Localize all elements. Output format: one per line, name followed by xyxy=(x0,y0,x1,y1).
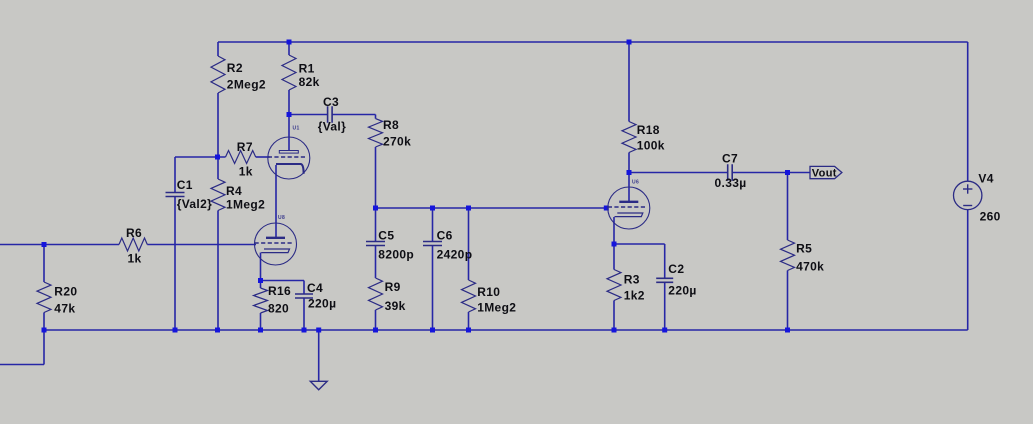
svg-text:U8: U8 xyxy=(278,215,285,221)
wire mid rail xyxy=(376,207,607,209)
capacitor C6 xyxy=(423,229,472,262)
svg-text:R1: R1 xyxy=(299,62,315,76)
svg-text:220µ: 220µ xyxy=(308,297,336,311)
capacitor C1 xyxy=(166,178,213,211)
svg-text:1k2: 1k2 xyxy=(624,289,645,303)
svg-text:R10: R10 xyxy=(477,285,500,299)
wire R5 leads xyxy=(787,173,789,331)
junction node A (R2/C1/R7/R4) xyxy=(215,155,220,160)
junction node mid R8 xyxy=(373,206,378,211)
wire U1 plate lead xyxy=(288,115,290,151)
junction node top R1 xyxy=(287,40,292,45)
junction node U8 cathode xyxy=(258,278,263,283)
capacitor C7 xyxy=(715,152,747,191)
junction node mid R10 xyxy=(466,206,471,211)
wire input down-leg xyxy=(0,245,44,365)
svg-text:2Meg2: 2Meg2 xyxy=(227,78,266,92)
junction node bus C4 xyxy=(302,328,307,333)
svg-text:1k: 1k xyxy=(239,165,253,179)
voltage source V4 xyxy=(954,172,1001,224)
junction node bus R3 xyxy=(612,328,617,333)
resistor R16 xyxy=(254,284,292,316)
wire U8 cathode lead xyxy=(260,253,262,281)
svg-text:R8: R8 xyxy=(383,118,399,132)
svg-text:C5: C5 xyxy=(378,229,394,243)
wire R4 leads xyxy=(217,157,219,330)
resistor R1 xyxy=(282,55,320,90)
svg-text:R4: R4 xyxy=(226,184,242,198)
junction node C3/R1/U1 plate xyxy=(287,112,292,117)
svg-text:1Meg2: 1Meg2 xyxy=(226,198,265,212)
svg-text:U6: U6 xyxy=(632,180,639,186)
capacitor C3 xyxy=(318,95,346,133)
svg-text:R6: R6 xyxy=(126,226,142,240)
resistor R3 xyxy=(607,270,645,303)
svg-text:C3: C3 xyxy=(323,95,339,109)
junction node U6 grid xyxy=(604,206,609,211)
capacitor C2 xyxy=(656,262,696,298)
wire C3 node to cap xyxy=(289,114,328,116)
resistor R7 xyxy=(226,140,256,179)
junction node bus R20 xyxy=(42,328,47,333)
junction node Vout xyxy=(785,170,790,175)
wire V4 bottom to ground bus xyxy=(967,210,969,331)
wire R1 top lead xyxy=(288,42,290,55)
svg-text:0.33µ: 0.33µ xyxy=(715,176,747,190)
junction node bus C1 xyxy=(173,328,178,333)
wire R1 bottom lead xyxy=(288,90,290,115)
svg-text:Vout: Vout xyxy=(812,167,837,179)
svg-text:39k: 39k xyxy=(385,299,406,313)
ground xyxy=(310,381,327,390)
svg-text:R3: R3 xyxy=(624,273,640,287)
capacitor C5 xyxy=(366,229,414,262)
svg-text:R20: R20 xyxy=(54,285,77,299)
svg-text:820: 820 xyxy=(268,302,289,316)
wire R2 bottom lead xyxy=(217,93,219,157)
svg-text:R16: R16 xyxy=(268,284,291,298)
junction node input xyxy=(42,242,47,247)
svg-text:82k: 82k xyxy=(299,75,320,89)
svg-text:470k: 470k xyxy=(796,260,824,274)
junction node mid C6 xyxy=(430,206,435,211)
svg-text:R9: R9 xyxy=(385,280,401,294)
junction node bus C6 xyxy=(430,328,435,333)
junction node R18/C7 xyxy=(627,170,632,175)
resistor R5 xyxy=(781,240,825,274)
wire R3 leads xyxy=(613,244,615,330)
junction node top R18 xyxy=(627,40,632,45)
svg-text:{Val2}: {Val2} xyxy=(177,197,212,211)
triode U6 xyxy=(608,180,650,230)
svg-text:R5: R5 xyxy=(796,242,812,256)
svg-text:U1: U1 xyxy=(293,126,300,132)
svg-text:220µ: 220µ xyxy=(668,284,696,298)
junction node bus gnd xyxy=(316,328,321,333)
junction node bus R5 xyxy=(785,328,790,333)
resistor R4 xyxy=(211,179,265,212)
wire R16 leads xyxy=(260,281,262,331)
wire C7 rail xyxy=(629,172,810,174)
junction node bus R10 xyxy=(466,328,471,333)
triode U8 xyxy=(255,215,297,265)
junction node bus C2 xyxy=(662,328,667,333)
svg-text:1k: 1k xyxy=(128,252,142,266)
capacitor C4 xyxy=(295,281,336,311)
resistor R10 xyxy=(462,280,517,314)
wire ground stub xyxy=(318,330,320,381)
svg-text:C6: C6 xyxy=(437,229,453,243)
svg-text:R18: R18 xyxy=(637,123,660,137)
svg-text:C4: C4 xyxy=(307,281,323,295)
wire C5 leads xyxy=(375,208,377,278)
svg-text:47k: 47k xyxy=(54,302,75,316)
resistor R2 xyxy=(211,56,266,93)
junction node bus R16 xyxy=(258,328,263,333)
wire U6 plate lead xyxy=(628,173,630,203)
wire R8 leads xyxy=(375,115,377,209)
svg-text:C1: C1 xyxy=(177,178,193,192)
svg-text:C2: C2 xyxy=(668,262,684,276)
svg-text:V4: V4 xyxy=(978,172,993,186)
wire input rail xyxy=(0,244,119,246)
resistor R9 xyxy=(369,278,406,313)
wire C2 branch xyxy=(614,244,665,330)
resistor R18 xyxy=(622,122,665,153)
wire V+ right drop to V4 xyxy=(967,42,969,181)
wire U1 cathode to U8 plate xyxy=(275,165,277,237)
wire C3 cap to R8 xyxy=(332,114,375,116)
junction node U6 cathode xyxy=(612,242,617,247)
svg-text:260: 260 xyxy=(980,210,1001,224)
output flag Vout xyxy=(810,166,842,179)
wire U6 cathode lead xyxy=(613,217,615,244)
triode U1 xyxy=(268,126,310,180)
svg-text:R2: R2 xyxy=(227,61,243,75)
svg-text:{Val}: {Val} xyxy=(318,119,346,133)
wire C4 branch xyxy=(261,281,305,331)
junction node bus R4 xyxy=(215,328,220,333)
wire C6 leads xyxy=(432,208,434,330)
wire C1 branch xyxy=(174,157,176,330)
wire ground bus xyxy=(44,329,968,331)
wire R2 top lead xyxy=(217,42,219,56)
wire R6 to tube U8 grid xyxy=(147,244,256,246)
svg-text:8200p: 8200p xyxy=(378,247,414,261)
wire R18 leads xyxy=(628,42,630,173)
wire node A rail xyxy=(175,156,226,158)
wire R10 leads xyxy=(468,208,470,330)
wire R9 bottom lead xyxy=(375,310,377,330)
svg-text:100k: 100k xyxy=(637,139,665,153)
svg-text:1Meg2: 1Meg2 xyxy=(477,300,516,314)
resistor R6 xyxy=(119,226,147,266)
svg-text:C7: C7 xyxy=(722,152,738,166)
resistor R8 xyxy=(369,118,412,149)
svg-text:270k: 270k xyxy=(383,135,411,149)
svg-text:2420p: 2420p xyxy=(437,247,473,261)
wire top supply rail xyxy=(218,41,968,43)
resistor R20 xyxy=(37,282,77,316)
svg-text:R7: R7 xyxy=(237,140,253,154)
junction node bus R9 xyxy=(373,328,378,333)
wire R7 to U1 grid xyxy=(256,156,270,158)
